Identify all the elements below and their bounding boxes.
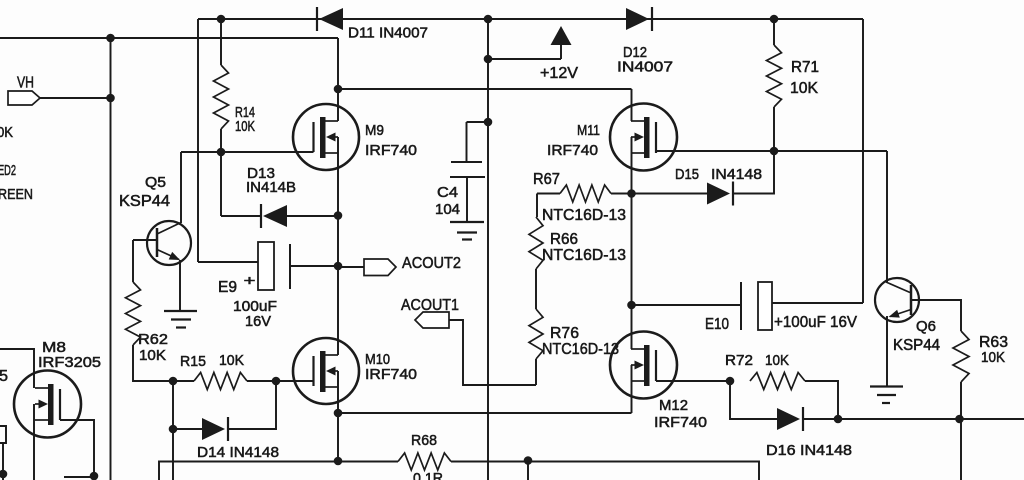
label R76 NTC16D-13: [542, 341, 619, 358]
node junction D14 anode: [169, 425, 178, 434]
svg-text:R76: R76: [550, 325, 579, 342]
svg-text:REEN: REEN: [0, 186, 33, 203]
svg-text:VH: VH: [17, 75, 34, 92]
wire M8 gate stub: [64, 476, 94, 478]
node junction R14 / M9 gate wire: [217, 148, 226, 157]
diode D13: [261, 204, 287, 228]
wire E9 right lead: [290, 265, 338, 267]
connector ACOUT1: [415, 312, 449, 328]
label Q5: [145, 174, 166, 191]
label E9: [218, 279, 237, 296]
node left edge: [0, 470, 7, 479]
ground below Q5: [164, 311, 197, 328]
resistor R15: [194, 373, 247, 390]
svg-text:+: +: [244, 272, 256, 288]
power +12V arrow: [551, 26, 572, 45]
capacitor C4 top plate: [451, 161, 482, 163]
node junction VH lead / vertical: [106, 94, 115, 103]
wire M9 drain bend x=338: [337, 38, 339, 121]
label E10 value +100uF 16V: [774, 314, 857, 331]
wire VH bus horizontal y=38: [0, 37, 338, 39]
svg-text:ACOUT2: ACOUT2: [402, 255, 461, 272]
wire Q6 emitter lead: [886, 316, 888, 386]
wire E10 right lead: [772, 302, 863, 304]
label VH: [17, 75, 34, 92]
wire M11 source vertical: [631, 137, 633, 349]
wire ACOUT2 lead: [338, 266, 364, 268]
label E9 value 16V: [245, 313, 271, 330]
svg-text:10K: 10K: [790, 80, 818, 97]
wire D14 cathode lead: [228, 381, 276, 429]
wire right vertical x=863: [862, 19, 864, 303]
wire D13 cathode lead: [287, 215, 338, 217]
svg-text:D16 IN4148: D16 IN4148: [766, 442, 852, 459]
label M12 IRF740: [654, 414, 707, 431]
svg-text:10K: 10K: [765, 352, 789, 369]
label R62 value 10K: [139, 347, 166, 364]
label D14 IN4148: [197, 444, 279, 461]
label R66: [550, 231, 578, 248]
resistor R71: [767, 45, 782, 107]
node junction top vertical / +12V tap: [484, 55, 493, 64]
svg-text:IRF740: IRF740: [654, 414, 707, 431]
transistor M8: [14, 371, 81, 438]
svg-text:IN4007: IN4007: [617, 59, 673, 76]
node junction VH bus / left vertical: [106, 34, 115, 43]
wire R62 top lead: [132, 240, 134, 282]
svg-text:NTC16D-13: NTC16D-13: [542, 247, 626, 264]
transistor Q5: [147, 221, 191, 265]
wire R71 top lead: [773, 19, 775, 45]
svg-text:104: 104: [435, 201, 460, 218]
svg-text:0K: 0K: [0, 124, 13, 141]
label +12V: [540, 65, 578, 82]
svg-text:R72: R72: [725, 352, 753, 369]
resistor R63: [953, 331, 969, 382]
label Q6: [916, 318, 936, 335]
capacitor E10 negative plate: [740, 282, 742, 330]
node junction M11 source / R67 / D15: [627, 189, 636, 198]
diode D16: [777, 407, 803, 431]
connector VH: [8, 91, 40, 105]
node junction R15 / D14 riser left: [169, 377, 178, 386]
wire M12 source vertical: [631, 365, 633, 413]
wire D16 cathode rail: [803, 418, 1024, 420]
wire VH lead: [40, 97, 111, 99]
wire R67 left lead: [537, 193, 560, 195]
label D15 IN4148: [711, 166, 762, 183]
resistor R14: [214, 65, 229, 129]
label R14 value 10K: [235, 118, 255, 135]
label M12: [659, 397, 688, 414]
node junction M12 gate / R72 / D16: [726, 377, 735, 386]
svg-text:10K: 10K: [235, 118, 255, 135]
wire bottom rail drop: [527, 461, 529, 480]
wire D13 anode lead: [221, 215, 261, 217]
wire Q5 collector to R14 node: [181, 151, 221, 153]
wire R14 top lead: [220, 19, 222, 65]
node junction R71 / gate rail: [770, 147, 779, 156]
capacitor E10 positive plate: [758, 282, 772, 330]
svg-text:D15: D15: [675, 166, 699, 183]
label D12 IN4007: [617, 59, 673, 76]
ground below C4: [450, 222, 484, 240]
wire Q5 emitter lead: [179, 260, 181, 311]
wire M12 gate lead: [656, 380, 730, 382]
node junction x=338 / gate rail y=89: [334, 85, 343, 94]
svg-text:R67: R67: [533, 171, 560, 188]
label M11: [577, 122, 600, 139]
label M8 IRF3205: [38, 354, 101, 371]
resistor R62: [126, 282, 141, 345]
svg-text:E9: E9: [218, 279, 237, 296]
label R72 value 10K: [765, 352, 789, 369]
label D12: [623, 44, 647, 61]
label R68: [411, 432, 437, 449]
svg-text:R68: R68: [411, 432, 437, 449]
label Q5 KSP44: [119, 193, 170, 210]
wire Q6 base lead: [911, 300, 961, 331]
wire R67 right lead: [611, 193, 632, 195]
node junction C4 tap: [484, 118, 493, 127]
wire M8 drain wire: [0, 349, 34, 388]
resistor R72: [750, 373, 805, 390]
label R14: [235, 104, 255, 121]
wire C4 top lead: [466, 122, 468, 162]
svg-text:NTC16D-13: NTC16D-13: [542, 207, 626, 224]
diode D11: [317, 7, 343, 31]
wire R63 bottom lead: [960, 382, 962, 480]
wire E10 left lead: [632, 304, 742, 306]
label partial 0K: [0, 124, 13, 141]
wire left edge stub: [2, 443, 4, 480]
resistor R68: [398, 453, 451, 470]
label partial REEN: [0, 186, 33, 203]
node junction D16 / R72: [834, 415, 843, 424]
label ACOUT2: [402, 255, 461, 272]
svg-text:M12: M12: [659, 397, 688, 414]
svg-text:KSP44: KSP44: [119, 193, 170, 210]
svg-text:M9: M9: [365, 122, 384, 139]
wire M10 gate lead: [276, 380, 314, 382]
resistor R66: [529, 217, 543, 269]
label R62: [138, 331, 168, 348]
node junction M8 gate bottom: [90, 472, 99, 480]
label Q6 KSP44: [893, 337, 940, 354]
svg-text:E10: E10: [705, 316, 729, 333]
node junction M10 source / y=413: [334, 409, 343, 418]
node junction top rail / R14: [217, 15, 226, 24]
wire M8 gate lead: [60, 420, 94, 476]
wire bottom rail left: [159, 462, 398, 480]
wire Q5 base lead: [133, 239, 157, 241]
label R67 NTC16D-13: [542, 207, 626, 224]
label partial 5: [0, 368, 8, 385]
wire D14 left riser: [172, 381, 174, 480]
label C4: [437, 184, 458, 201]
wire D14 anode lead: [173, 428, 202, 430]
diode D12: [626, 7, 652, 31]
resistor R67: [560, 185, 611, 202]
capacitor E9 positive plate: [258, 242, 274, 290]
svg-text:10K: 10K: [981, 349, 1005, 366]
wire D13 riser: [220, 152, 222, 216]
svg-text:R15: R15: [180, 353, 206, 370]
label D13 IN414B: [246, 179, 296, 196]
svg-text:IRF3205: IRF3205: [38, 354, 101, 371]
wire top +12V rail y=19: [198, 18, 863, 20]
label R76: [550, 325, 579, 342]
svg-text:Q6: Q6: [916, 318, 936, 335]
svg-text:10K: 10K: [139, 347, 166, 364]
svg-text:IRF740: IRF740: [547, 142, 598, 159]
label R63: [979, 334, 1008, 351]
wire M11 drain bend: [631, 89, 633, 121]
svg-text:16V: 16V: [245, 313, 271, 330]
resistor R76: [529, 309, 543, 359]
wire gate rail y=89: [338, 88, 632, 90]
wire source link y=413: [338, 412, 632, 414]
wire C4 ground stem: [466, 177, 468, 222]
ground below Q6: [870, 387, 903, 404]
label M11 IRF740: [547, 142, 598, 159]
label C4 value 104: [435, 201, 460, 218]
wire C4 top tap: [467, 121, 489, 123]
label D16 IN4148: [766, 442, 852, 459]
wire D15 anode lead: [632, 193, 708, 195]
svg-text:R66: R66: [550, 231, 578, 248]
wire center vertical x=488: [487, 19, 489, 480]
label M10 IRF740: [365, 366, 417, 383]
svg-text:R71: R71: [791, 59, 819, 76]
label R71 value 10K: [790, 80, 818, 97]
wire left long vertical x=110: [110, 38, 112, 480]
wire E9 left lead: [198, 261, 258, 263]
label M10: [365, 351, 390, 368]
svg-text:NTC16D-13: NTC16D-13: [542, 341, 619, 358]
wire segment top rail (under D11): [0, 0, 1, 1]
svg-text:5: 5: [0, 368, 8, 385]
label R68 value 0.1R: [413, 470, 443, 480]
wire R62 bottom lead: [133, 345, 194, 381]
label E9 plus: [244, 272, 256, 288]
label ACOUT1: [401, 297, 459, 314]
svg-text:C4: C4: [437, 184, 458, 201]
node junction bottom rail drop: [524, 456, 533, 465]
svg-text:Q5: Q5: [145, 174, 166, 191]
label M9: [365, 122, 384, 139]
label M8: [42, 339, 66, 356]
connector partial left edge: [0, 426, 6, 443]
transistor Q6: [875, 278, 919, 322]
node junction D13 / x=338: [334, 211, 343, 220]
svg-text:10K: 10K: [219, 352, 244, 369]
svg-text:R62: R62: [138, 331, 168, 348]
node junction top rail / center vertical: [484, 15, 493, 24]
svg-text:ACOUT1: ACOUT1: [401, 297, 459, 314]
wire R71 bottom lead: [773, 107, 775, 151]
svg-text:M11: M11: [577, 122, 600, 139]
node junction D16 rail / R63: [955, 415, 964, 424]
svg-text:D11 IN4007: D11 IN4007: [348, 25, 428, 42]
wire M11 gate rail y=151: [656, 150, 887, 152]
wire M8 source vertical: [33, 404, 35, 480]
node junction R15 / M10 gate: [272, 377, 281, 386]
wire corner left end of top rail down: [197, 19, 199, 262]
label E9 value 100uF: [233, 298, 277, 315]
svg-text:+12V: +12V: [540, 65, 578, 82]
wire bottom rail right: [451, 462, 759, 480]
label R72: [725, 352, 753, 369]
label R63 value 10K: [981, 349, 1005, 366]
wire R76 bottom lead: [535, 359, 537, 385]
label E10: [705, 316, 729, 333]
svg-text:KSP44: KSP44: [893, 337, 940, 354]
wire R66 to R76: [535, 269, 537, 309]
wire D16 anode lead: [730, 381, 777, 419]
label R66 NTC16D-13: [542, 247, 626, 264]
transistor M11: [610, 104, 677, 171]
wire +12V stem: [560, 45, 562, 59]
capacitor E9 negative plate: [289, 244, 291, 289]
label R67: [533, 171, 560, 188]
label M9 IRF740: [365, 142, 417, 159]
node junction M10 source / y=461: [334, 457, 343, 466]
wire ACOUT1 lead: [449, 320, 536, 385]
diode D15: [707, 182, 733, 206]
svg-text:IRF740: IRF740: [365, 366, 417, 383]
svg-text:D14 IN4148: D14 IN4148: [197, 444, 279, 461]
capacitor C4 bottom plate: [450, 176, 485, 178]
wire R72 right lead: [805, 381, 838, 419]
wire M9 gate lead: [221, 151, 314, 153]
node junction E9 / x=338: [334, 262, 343, 271]
label D11 IN4007: [348, 25, 428, 42]
svg-text:+100uF 16V: +100uF 16V: [774, 314, 857, 331]
wire +12V tap: [488, 58, 561, 60]
wire gate rail corner x=887: [886, 151, 888, 282]
label R15 value 10K: [219, 352, 244, 369]
wire D15 cathode lead: [733, 151, 774, 194]
svg-text:0.1R: 0.1R: [413, 470, 443, 480]
transistor M10: [293, 338, 359, 404]
svg-text:ED2: ED2: [0, 162, 16, 179]
wire R67 to R66: [536, 194, 538, 218]
svg-text:IRF740: IRF740: [365, 142, 417, 159]
node junction M11 source / E10: [627, 301, 636, 310]
transistor M12: [610, 332, 677, 399]
diode D14: [202, 417, 228, 441]
wire M9 source vertical: [337, 137, 339, 355]
wire R14 bottom lead: [220, 129, 222, 152]
transistor M9: [293, 104, 359, 170]
label R15: [180, 353, 206, 370]
label D15: [675, 166, 699, 183]
label D13: [247, 165, 275, 182]
wire Q5 collector vertical: [180, 152, 182, 223]
node junction top rail / R71: [770, 15, 779, 24]
wire M10 source vertical: [337, 371, 339, 461]
connector ACOUT2: [364, 259, 396, 276]
svg-text:IN4148: IN4148: [711, 166, 762, 183]
wire R15 to M10 gate: [247, 380, 276, 382]
svg-text:IN414B: IN414B: [246, 179, 296, 196]
label partial ED2: [0, 162, 16, 179]
label R71: [791, 59, 819, 76]
